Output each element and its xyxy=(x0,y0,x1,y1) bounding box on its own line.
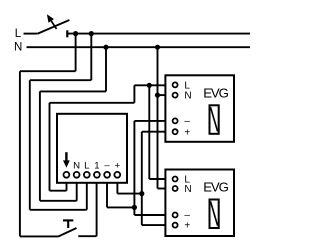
svg-text:–: – xyxy=(184,210,190,221)
svg-text:–: – xyxy=(184,116,190,127)
svg-text:N: N xyxy=(14,42,22,54)
svg-text:N: N xyxy=(73,161,80,172)
svg-text:+: + xyxy=(114,161,120,172)
svg-text:+: + xyxy=(184,221,190,232)
svg-text:–: – xyxy=(104,160,110,171)
svg-text:N: N xyxy=(184,91,191,102)
svg-text:N: N xyxy=(184,184,191,195)
svg-text:L: L xyxy=(15,28,22,40)
svg-text:L: L xyxy=(84,161,90,172)
svg-text:EVG: EVG xyxy=(203,180,228,195)
svg-text:1: 1 xyxy=(94,161,99,172)
svg-text:EVG: EVG xyxy=(203,86,228,101)
svg-text:+: + xyxy=(184,127,190,138)
